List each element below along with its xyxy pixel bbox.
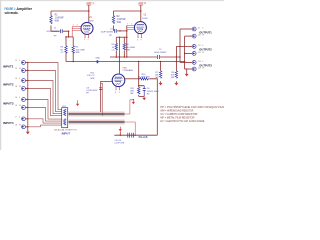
wire C5 to output bus [160,56,180,58]
svg-text:OUTPUT2: OUTPUT2 [199,49,212,52]
connector J14 output jack [190,67,204,71]
svg-text:MF = METAL FILM RESISTOR: MF = METAL FILM RESISTOR [160,117,194,120]
svg-text:3: 3 [84,39,85,41]
junction [68,36,70,38]
svg-text:3: 3 [137,39,138,41]
wire mid column to V3 [119,37,121,74]
wire J2 to pot [25,71,61,112]
junction [27,80,28,81]
wire +AMP_B to V2 plate [140,5,142,22]
bus wire signal [110,56,157,58]
svg-text:OUTPUT3: OUTPUT3 [199,65,212,68]
junction [119,61,121,63]
wire V3 grid left [101,81,113,112]
svg-text:INPUT2: INPUT2 [3,84,14,87]
wire J3 to pot [25,81,61,114]
svg-text:7199/6AN8: 7199/6AN8 [122,69,133,72]
wire +AMP_A to V1 plate [88,5,90,22]
resistor R12 [130,86,140,97]
junction [27,62,28,63]
junction [126,56,128,58]
junction [27,118,28,119]
junction [27,99,28,100]
svg-text:L: L [203,28,204,30]
svg-text:L: L [203,61,204,63]
capacitor C6 [141,85,159,97]
output bus L [179,29,181,62]
ground [142,96,146,100]
svg-text:INPUT1: INPUT1 [3,66,14,69]
wire J1 to pot [25,63,61,110]
V1 cathode pins [84,34,89,41]
svg-text:2: 2 [131,24,132,26]
ground [175,83,179,86]
svg-text:schematic.: schematic. [5,11,19,15]
wire J7 to pot [25,119,61,123]
svg-text:1K 10W WW: 1K 10W WW [138,77,150,79]
svg-text:EL* = ELECTROLYTIC CAP, AUDIO: EL* = ELECTROLYTIC CAP, AUDIO GRADE [160,120,204,123]
junction [135,135,136,136]
connector J13 output jack [190,61,203,65]
svg-text:EL84: EL84 [142,18,148,20]
svg-text:+AMP_B: +AMP_B [138,1,146,5]
wire R1 to C1 [51,30,60,32]
capacitor C1 [46,27,62,37]
resistor R10 [138,74,150,80]
connector J2 input jack [15,68,28,72]
connector J5 input jack [15,97,28,101]
capacitor C10 [132,133,134,138]
junction [176,56,178,58]
wire V3 plate to R10 [125,78,140,80]
svg-text:9: 9 [141,39,142,41]
junction [126,30,128,32]
wire fil rail [114,134,157,136]
wire J5 to pot [25,100,61,120]
junction [138,85,140,87]
svg-text:INPUT: INPUT [62,132,71,136]
capacitor C9 [128,133,130,138]
bus wire ground rail [66,61,185,63]
svg-text:10UF 450WV: 10UF 450WV [154,52,167,54]
wire R12 C6 feed [139,62,145,86]
wire C6 R12 bottoms [139,95,145,97]
svg-text:OUTPUT1: OUTPUT1 [199,31,212,34]
svg-text:180 OHM: 180 OHM [126,47,135,49]
capacitor C5 [154,49,167,59]
connector J3 input jack [15,78,28,82]
connector J6 input jack [15,105,28,109]
svg-text:WW: WW [76,52,80,54]
resistor R7 [155,62,162,83]
op tube V1 [81,17,94,34]
junction [116,56,118,58]
wire to J8 [185,68,193,70]
net arrow down [132,100,135,104]
wire to J3 [180,28,192,30]
V1 grid pins triple [72,25,81,37]
wiper arrow R [68,121,71,123]
wire R2 top rail [114,10,141,12]
svg-text:7: 7 [127,24,128,26]
junction [179,46,181,48]
junction [27,88,28,89]
svg-text:WW = WIREWOUND RESISTOR: WW = WIREWOUND RESISTOR [160,111,193,113]
svg-text:6: 6 [119,92,120,94]
junction [88,10,90,12]
resistor R5 [112,37,118,57]
junction [68,30,70,32]
wire C4 to V2 grid node [117,30,127,32]
cable R shielded pair [68,120,124,124]
wire R10 to down column [149,79,157,135]
svg-text:EL*: EL* [147,93,151,95]
svg-text:CC: CC [112,50,116,52]
net +AMP_B [138,1,146,5]
svg-text:L: L [19,97,20,99]
connector J8 input jack [15,124,28,128]
caption FIGURE 1 [5,7,33,15]
resistor R6 [123,37,135,57]
svg-text:9: 9 [88,39,89,41]
svg-text:1.0M MF: 1.0M MF [117,19,127,21]
svg-text:2: 2 [77,25,78,27]
wiper arrow L [68,113,71,115]
wire R1 top rail [51,10,89,12]
wire input ground bus [27,63,29,132]
svg-text:0.1UF CER: 0.1UF CER [115,143,125,145]
junction [176,61,178,63]
junction [140,10,142,12]
node GND tie [95,58,100,64]
junction [65,36,67,38]
wire to J6 [185,52,193,54]
junction [27,70,28,71]
junction [120,135,121,136]
svg-text:EL84: EL84 [88,20,94,22]
svg-text:10UF 450WV: 10UF 450WV [46,31,59,33]
ground [159,83,163,86]
svg-text:1.5K CC: 1.5K CC [87,75,95,77]
connector J1 input jack [15,60,28,64]
svg-text:10UF 450WV: 10UF 450WV [101,32,114,34]
wire to J5 [176,45,192,47]
junction [138,78,140,80]
resistor R1 [50,11,64,31]
junction [184,53,186,55]
svg-text:1.0M MF: 1.0M MF [55,18,65,20]
svg-text:8: 8 [115,92,116,94]
wire J8 to pot [25,125,61,127]
connector J11 output jack [190,45,203,49]
potentiometer VR1 [54,106,78,136]
svg-text:WW: WW [126,50,130,52]
resistor R3 [60,37,67,62]
junction [119,36,121,38]
wire cable L to flag [125,100,134,114]
junction [126,36,128,38]
wire R5 R6 node horizontal [116,36,127,38]
capacitor C4 [101,28,117,37]
net arrow above pot [76,100,79,106]
connector J12 output jack [190,52,204,56]
svg-text:10K: 10K [171,75,175,77]
cable L shielded pair [68,112,124,116]
svg-text:J4: J4 [15,85,17,88]
svg-text:INPUT3: INPUT3 [3,103,14,106]
connector J9 output jack [190,27,203,31]
svg-text:CC: CC [60,52,64,54]
junction [138,61,140,63]
notes legend [160,106,224,123]
V2 cathode pins [137,33,142,41]
svg-text:J11: J11 [198,45,201,47]
svg-text:CC = CARBON COMP RESISTOR: CC = CARBON COMP RESISTOR [160,113,197,116]
svg-text:WW: WW [90,78,94,80]
svg-text:PP = POLYPROPYLENE CAP, 630V O: PP = POLYPROPYLENE CAP, 630V OR EQUIV FI… [160,106,224,109]
wire node A horizontal [66,36,73,38]
resistor R2 [112,11,126,30]
svg-text:J1: J1 [15,60,17,62]
tube V3 [112,67,133,86]
wire cable R to fil node [125,122,136,135]
op tube V2 [134,14,148,33]
junction [119,56,121,58]
junction [179,56,181,58]
resistor R4 [72,37,85,62]
output bus R [184,36,186,69]
svg-text:7: 7 [73,25,74,27]
V3 cathode pins [115,86,120,93]
svg-text:L: L [203,45,204,47]
svg-text:10K: 10K [155,75,159,77]
wire to J7 [180,61,192,63]
svg-text:L: L [19,60,20,62]
ground [185,74,189,77]
wire J6 to pot [25,108,61,122]
ground [26,132,30,135]
svg-text:FIL-A,B: FIL-A,B [139,136,148,139]
svg-text:+: + [141,85,142,87]
junction [133,99,134,100]
svg-text:L: L [19,116,20,118]
junction [124,56,126,58]
wire output ground stub [185,69,187,74]
svg-text:L: L [19,78,20,80]
wire C1 to grid node [63,31,69,37]
junction [27,126,28,127]
svg-text:GND: GND [95,58,100,60]
svg-text:100 OHM: 100 OHM [76,49,85,51]
connector J4 input jack [15,85,28,90]
svg-text:Amplifier: Amplifier [16,7,32,11]
svg-text:INPUT4: INPUT4 [3,122,14,125]
svg-text:V3B: V3B [122,67,127,69]
net +AMP_A [86,1,94,5]
net arrow fil [119,127,122,136]
wire to J4 [185,35,193,37]
V2 grid pins triple [127,24,135,30]
capacitor C8 [86,72,102,94]
svg-text:+AMP_A: +AMP_A [86,1,94,5]
junction [27,107,28,108]
junction [184,61,186,63]
wire C8 branch [101,83,103,116]
junction [160,61,162,63]
junction [119,30,121,32]
wire J4 to pot [25,89,61,116]
connector J7 input jack [15,116,28,120]
junction [72,61,74,63]
connector J10 output jack [190,34,204,38]
wire grid node down [126,26,128,58]
resistor R8 [171,46,178,83]
